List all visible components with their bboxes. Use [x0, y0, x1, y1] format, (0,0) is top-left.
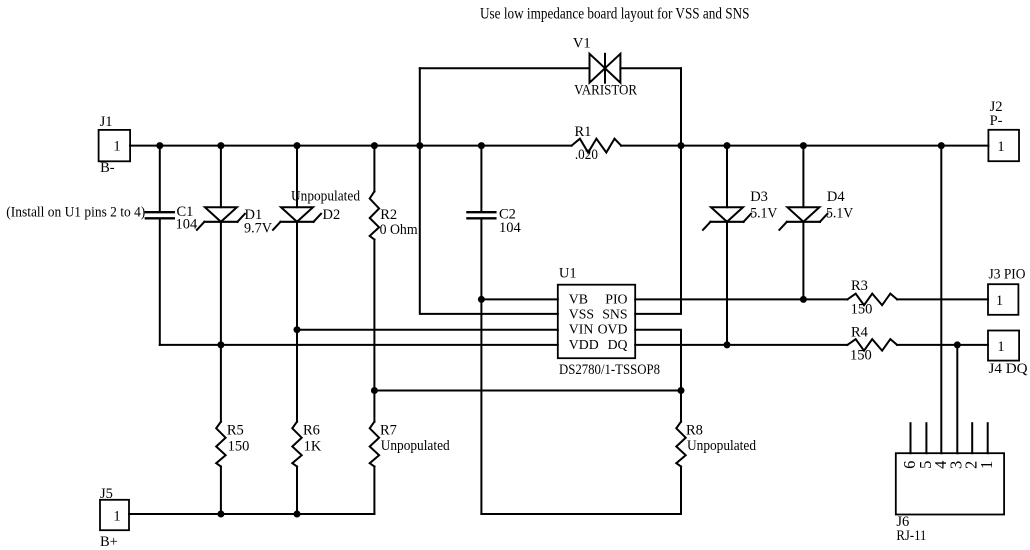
svg-text:Unpopulated: Unpopulated: [291, 188, 361, 204]
wire: VB pin to C2 column: [481, 298, 557, 300]
resistor R3: [847, 294, 897, 306]
node: bottomrail-R6: [294, 511, 301, 518]
node: R7-link: [371, 387, 378, 394]
connector J5: [100, 486, 129, 550]
wire: R7 to R8 link: [374, 390, 681, 392]
node: DQ-J6pin3: [954, 341, 961, 348]
svg-text:SNS: SNS: [602, 307, 627, 322]
node: rail-D2: [294, 142, 301, 149]
svg-text:B+: B+: [100, 534, 118, 550]
wire: OVD pin to R8 column: [635, 330, 681, 422]
capacitor C1: [146, 146, 198, 345]
svg-text:R4: R4: [851, 325, 869, 341]
node: PIO-D4: [800, 296, 807, 303]
wire: J6 pin 1 stub: [987, 423, 989, 453]
svg-text:D2: D2: [323, 207, 341, 223]
svg-text:150: 150: [850, 348, 872, 364]
svg-text:PIO: PIO: [605, 292, 627, 307]
node: rail-R2: [371, 142, 378, 149]
svg-text:DQ: DQ: [608, 337, 628, 352]
wire: J6 pin 2 stub: [971, 423, 973, 453]
node: bottomrail-R5: [217, 511, 224, 518]
svg-text:R6: R6: [303, 422, 320, 438]
node: rail-C1: [156, 142, 163, 149]
connector J2: [988, 99, 1019, 161]
svg-text:Unpopulated: Unpopulated: [381, 438, 451, 454]
wire: PIO pin to J3: [635, 298, 847, 300]
svg-text:1: 1: [997, 339, 1004, 355]
svg-text:VARISTOR: VARISTOR: [574, 83, 637, 99]
svg-text:Unpopulated: Unpopulated: [687, 438, 757, 454]
resistor R5: [216, 422, 249, 514]
wire: varistor loop top left: [420, 67, 590, 69]
svg-text:R8: R8: [686, 422, 703, 438]
svg-text:1: 1: [996, 293, 1003, 309]
connector J1: [99, 114, 131, 176]
node: rail-D1: [217, 142, 224, 149]
node: VIN-D2: [294, 326, 301, 333]
svg-text:RJ-11: RJ-11: [896, 528, 926, 544]
svg-text:J3 PIO: J3 PIO: [989, 266, 1026, 282]
svg-text:J5: J5: [100, 486, 113, 502]
svg-text:R1: R1: [575, 124, 592, 140]
resistor R6: [292, 422, 322, 514]
svg-text:P-: P-: [990, 113, 1003, 129]
svg-text:VB: VB: [569, 292, 588, 307]
svg-text:9.7V: 9.7V: [244, 220, 273, 236]
svg-text:D3: D3: [750, 189, 768, 205]
resistor R8 (unpopulated): [676, 422, 756, 514]
connector J3: [988, 266, 1026, 315]
capacitor C2: [467, 146, 521, 514]
svg-text:R2: R2: [380, 207, 397, 223]
wire: main top rail right of R1: [621, 145, 988, 147]
connector J6 RJ-11: [896, 453, 1004, 544]
node: rail-D3: [724, 142, 731, 149]
wire: rail to J6 pin 4: [940, 146, 942, 454]
resistor R4: [847, 339, 897, 351]
wire: J6 pin 6 stub: [910, 423, 912, 453]
svg-text:1: 1: [113, 509, 120, 525]
node: DQ-D3: [724, 341, 731, 348]
resistor R2: [370, 146, 419, 422]
svg-text:0 Ohm: 0 Ohm: [380, 222, 419, 238]
svg-text:150: 150: [228, 438, 250, 454]
svg-text:5.1V: 5.1V: [750, 206, 778, 222]
svg-text:J4 DQ: J4 DQ: [989, 361, 1029, 377]
wire: DQ line to J6 pin 3: [956, 345, 958, 453]
node: rail-varistor-right: [678, 142, 685, 149]
svg-text:VSS: VSS: [569, 307, 594, 322]
resistor R1: [572, 139, 622, 153]
wire: main top rail left of R1: [130, 145, 572, 147]
connector J4: [988, 331, 1028, 377]
wire: varistor loop top right: [620, 67, 681, 69]
svg-text:Use low impedance board layout: Use low impedance board layout for VSS a…: [480, 6, 750, 23]
svg-text:U1: U1: [559, 265, 577, 281]
svg-text:B-: B-: [100, 160, 115, 176]
resistor R7 (unpopulated): [370, 422, 451, 514]
svg-text:R3: R3: [851, 278, 868, 294]
svg-text:1: 1: [113, 138, 120, 154]
svg-text:VIN: VIN: [569, 322, 594, 337]
wire: bottom link C2 column to R8 column: [481, 513, 681, 515]
svg-text:1K: 1K: [304, 438, 322, 454]
node: VDD-D1: [217, 341, 224, 348]
svg-text:DS2780/1-TSSOP8: DS2780/1-TSSOP8: [559, 362, 660, 378]
node: rail-J6pin4: [938, 142, 945, 149]
node: R8-link: [678, 387, 685, 394]
svg-text:R5: R5: [227, 422, 244, 438]
svg-text:(Install on U1 pins 2 to 4): (Install on U1 pins 2 to 4): [6, 205, 145, 221]
wire: J6 pin 5 stub: [925, 423, 927, 453]
node: rail-D4: [800, 142, 807, 149]
svg-text:D4: D4: [827, 189, 845, 205]
svg-text:VDD: VDD: [569, 337, 599, 352]
zener diode D3: [703, 146, 778, 345]
wire: vertical from varistor loop through rail to VSS corner: [420, 68, 558, 314]
svg-text:104: 104: [499, 220, 522, 236]
svg-text:V1: V1: [573, 35, 591, 51]
svg-text:R7: R7: [380, 422, 397, 438]
zener diode D4: [779, 146, 853, 300]
wire: bottom rail from J5 to R7: [129, 513, 374, 515]
svg-text:104: 104: [176, 217, 199, 233]
IC U1: [558, 265, 660, 378]
zener diode D1: [197, 146, 273, 422]
svg-text:.020: .020: [575, 147, 598, 163]
svg-text:150: 150: [851, 302, 873, 318]
wire: VDD pin to C1 corner: [160, 344, 558, 346]
node: VB-C2: [478, 296, 485, 303]
svg-text:1: 1: [997, 139, 1004, 155]
zener diode D2 (unpopulated): [273, 146, 361, 422]
wire: DQ pin to J4: [635, 344, 847, 346]
varistor V1: [573, 35, 637, 98]
node: rail-C2: [478, 142, 485, 149]
wire: vertical varistor right down to SNS: [635, 68, 681, 314]
svg-text:5.1V: 5.1V: [826, 206, 854, 222]
node: rail-varistor-left: [416, 142, 423, 149]
svg-text:J1: J1: [100, 114, 113, 130]
wire: VIN pin to D2 column: [297, 329, 558, 331]
svg-text:OVD: OVD: [598, 322, 628, 337]
svg-text:1: 1: [977, 461, 996, 469]
